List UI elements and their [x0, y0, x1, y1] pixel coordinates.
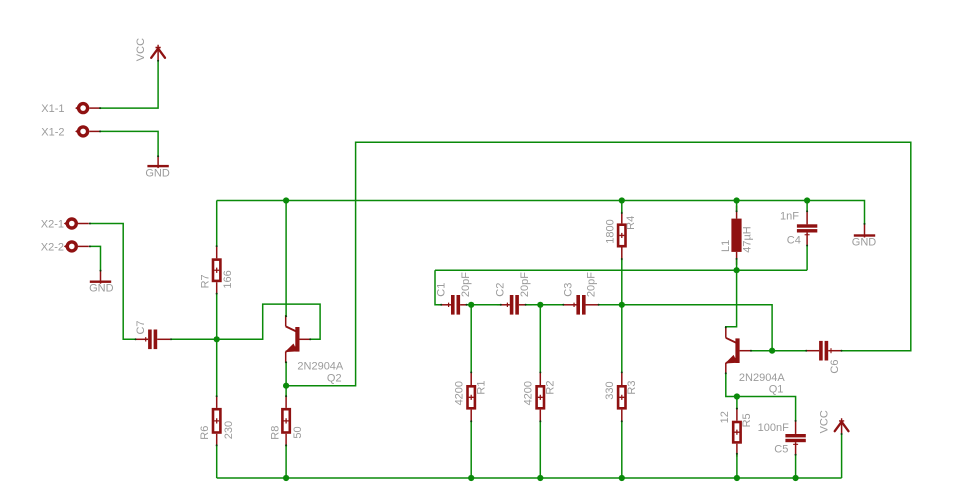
svg-text:20pF: 20pF — [460, 272, 472, 297]
wire top rail to C4 — [806, 201, 808, 212]
junction Q1 emitter node — [734, 393, 740, 399]
resistor R3 — [618, 372, 625, 423]
connector pad X1-2 — [75, 127, 100, 136]
svg-text:20pF: 20pF — [586, 272, 598, 297]
svg-text:4200: 4200 — [454, 381, 466, 405]
wire R2 to bottom rail — [539, 421, 541, 478]
wire C1 to R1 node — [467, 304, 501, 306]
resistor R6 — [213, 395, 220, 447]
svg-text:R3: R3 — [626, 381, 638, 395]
svg-text:C7: C7 — [135, 320, 147, 334]
wire R3 to bottom rail — [621, 421, 623, 478]
capacitor C1 — [438, 295, 473, 315]
svg-text:100nF: 100nF — [758, 422, 789, 434]
wire C4 to mid rail — [806, 246, 808, 271]
transistor Q1 — [726, 326, 751, 374]
svg-text:R8: R8 — [270, 426, 282, 440]
wire bottom rail — [217, 477, 842, 479]
junction caps row / R1 — [468, 302, 474, 308]
wire X1-1 to VCC riser — [100, 61, 158, 108]
capacitor C4 — [797, 211, 817, 245]
supply symbol VCC (bottom right) — [835, 418, 849, 434]
wire Q2 emitter down — [285, 362, 287, 386]
svg-text:C4: C4 — [787, 235, 801, 247]
svg-text:C5: C5 — [774, 444, 788, 456]
wire caps feed from mid rail — [435, 270, 441, 305]
junction top rail / L1 — [734, 197, 740, 203]
svg-text:R1: R1 — [475, 381, 487, 395]
wire R4 down to caps row — [621, 259, 623, 305]
wire Q1 base to junction — [751, 350, 772, 352]
wire L1 to mid rail and Q1 collector — [726, 259, 737, 328]
svg-text:R6: R6 — [199, 426, 211, 440]
wire C5 to bottom rail — [795, 455, 797, 478]
svg-text:VCC: VCC — [818, 410, 830, 433]
wire R5 to bottom rail — [736, 454, 738, 478]
connector pad X1-1 — [75, 104, 100, 113]
svg-text:X1-2: X1-2 — [41, 126, 64, 138]
svg-text:330: 330 — [604, 381, 616, 399]
svg-text:GND: GND — [145, 168, 170, 180]
junction bottom rail / R8 — [283, 475, 289, 481]
wire node A up to R7 — [216, 294, 218, 340]
wire top rail to L1 — [736, 201, 738, 212]
svg-text:1800: 1800 — [604, 219, 616, 243]
junction Q1 base node — [769, 348, 775, 354]
svg-text:47µH: 47µH — [741, 226, 753, 253]
svg-text:12: 12 — [719, 411, 731, 423]
wire X2-1 to C7 — [90, 224, 136, 340]
svg-text:X1-1: X1-1 — [41, 103, 64, 115]
capacitor C6 — [806, 341, 841, 361]
svg-text:50: 50 — [292, 426, 304, 438]
resistor R8 — [282, 395, 289, 447]
wire C7 to node A — [171, 338, 217, 340]
svg-text:4200: 4200 — [523, 381, 535, 405]
connector pad X2-1 — [64, 219, 89, 228]
resistor R5 — [733, 408, 740, 457]
ground GND (top right) — [854, 224, 875, 238]
junction node A (C7/R7/R6/base loop) — [214, 336, 220, 342]
junction Q2 emitter node — [283, 383, 289, 389]
wire top rail to Q2 collector — [285, 201, 287, 317]
pin connection points — [89, 60, 866, 456]
wire top supply rail — [217, 201, 865, 224]
ground GND (under X2-2) — [90, 270, 111, 283]
wire Q2 emitter to C6 (top loop) — [286, 142, 911, 385]
svg-text:Q1: Q1 — [769, 383, 784, 395]
wire bottom rail to VCC — [841, 434, 843, 478]
wire X1-2 to GND — [100, 131, 158, 156]
connector pad X2-2 — [64, 242, 89, 251]
ground GND (under X1-2) — [147, 156, 168, 169]
junction mid rail / L1 — [734, 267, 740, 273]
resistor R4 — [618, 210, 625, 260]
svg-text:20pF: 20pF — [519, 272, 531, 297]
wire C2 to R2 node — [526, 304, 564, 306]
junction top rail / Q2 collector — [283, 197, 289, 203]
wire caps row down to R3 — [621, 305, 623, 373]
wire R6 to bottom rail — [216, 445, 218, 478]
junction bottom rail / R2 — [537, 475, 543, 481]
svg-text:R5: R5 — [741, 413, 753, 427]
wire R7 to top rail — [216, 201, 218, 247]
svg-text:GND: GND — [852, 236, 877, 248]
svg-text:C2: C2 — [494, 283, 506, 297]
capacitor C7 — [135, 330, 170, 350]
wire node A down to R6 — [216, 339, 218, 396]
wire R1 to bottom rail — [470, 421, 472, 478]
capacitor C5 — [785, 421, 805, 455]
transistor Q2 — [286, 315, 311, 363]
wire Q1 emitter down — [726, 373, 737, 396]
origin tick C6 — [830, 348, 832, 353]
svg-text:L1: L1 — [720, 240, 732, 252]
wire Q1 emitter node to R5 — [736, 397, 738, 409]
wire node A to Q2 base loop — [217, 304, 320, 339]
wire Q2 emitter node to R8 — [285, 386, 287, 397]
svg-text:R4: R4 — [625, 216, 637, 230]
junction bottom rail / R3 — [619, 475, 625, 481]
junction bottom rail / R5 — [734, 475, 740, 481]
junction caps row / R2 — [537, 302, 543, 308]
svg-text:230: 230 — [223, 421, 235, 439]
svg-text:C3: C3 — [563, 283, 575, 297]
resistor R2 — [537, 372, 544, 423]
svg-text:GND: GND — [89, 282, 114, 294]
svg-text:C6: C6 — [829, 360, 841, 374]
wire caps row down to R2 — [539, 305, 541, 373]
svg-text:Q2: Q2 — [327, 373, 342, 385]
inductor L1 — [731, 206, 741, 265]
svg-text:166: 166 — [222, 270, 234, 288]
svg-text:R7: R7 — [200, 274, 212, 288]
supply symbol VCC (top) — [151, 45, 165, 61]
svg-text:VCC: VCC — [135, 38, 147, 61]
junction caps row / R3 / R4 — [619, 302, 625, 308]
capacitor C3 — [563, 295, 598, 315]
svg-text:X2-1: X2-1 — [41, 218, 64, 230]
wire mid rail (caps feed / L1 / C4) — [435, 269, 807, 271]
resistor R7 — [213, 245, 220, 295]
junction top rail / R4 — [619, 197, 625, 203]
svg-text:1nF: 1nF — [780, 211, 799, 223]
capacitor C2 — [497, 295, 532, 315]
wire Q1 emitter node to C5 — [737, 397, 796, 421]
resistor R1 — [468, 372, 475, 423]
svg-text:2N2904A: 2N2904A — [739, 372, 786, 384]
wire Q1 base node to C6 — [772, 350, 806, 352]
wire caps row down to R1 — [470, 305, 472, 373]
wire top rail to R4 — [621, 201, 623, 214]
wire C3 to R3 node and Q1 base — [599, 305, 773, 351]
wire X2-2 to GND — [90, 246, 101, 270]
wire R8 to bottom rail — [285, 445, 287, 478]
junction bottom rail / C5 — [793, 475, 799, 481]
svg-text:C1: C1 — [435, 283, 447, 297]
svg-text:2N2904A: 2N2904A — [297, 361, 344, 373]
svg-text:R2: R2 — [545, 381, 557, 395]
junction bottom rail / R1 — [468, 475, 474, 481]
svg-text:X2-2: X2-2 — [41, 241, 64, 253]
junction top rail / C4 — [804, 197, 810, 203]
